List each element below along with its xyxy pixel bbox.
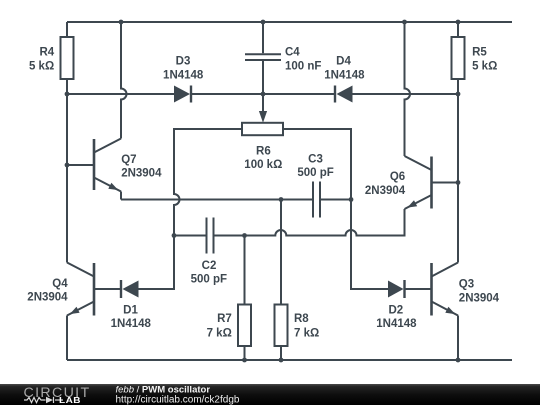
svg-text:100 kΩ: 100 kΩ <box>244 159 282 171</box>
transistor Q7 2N3904 <box>67 139 162 200</box>
footer bar <box>0 384 540 405</box>
wire R7 lower lead <box>244 346 246 360</box>
transistor Q3 2N3904 <box>405 263 500 316</box>
wire right column (top rail to Q3 collector) <box>457 22 459 263</box>
wire C4 bottom lead to R6 wiper <box>262 61 264 113</box>
wire row from R4 bottom to D3 anode with hop over x=121 <box>67 93 174 95</box>
svg-text:5 kΩ: 5 kΩ <box>472 60 497 72</box>
svg-text:7 kΩ: 7 kΩ <box>294 327 319 339</box>
node top rail / Q7 collector <box>119 20 124 25</box>
wire R6 right terminal down to node B <box>284 129 351 200</box>
svg-text:C3: C3 <box>308 153 323 165</box>
svg-text:Q3: Q3 <box>459 279 474 291</box>
resistor R5 5 kΩ <box>452 37 498 79</box>
potentiometer R6 100 kΩ <box>242 111 283 171</box>
svg-text:5 kΩ: 5 kΩ <box>29 60 54 72</box>
wire Q4 emitter column <box>66 316 68 361</box>
svg-text:Q7: Q7 <box>121 154 136 166</box>
svg-text:C4: C4 <box>285 47 300 59</box>
wire C3 right plate to node B <box>320 199 351 201</box>
svg-text:1N4148: 1N4148 <box>111 318 152 330</box>
svg-text:D4: D4 <box>336 56 351 68</box>
wire R8 upper lead from Q7 emitter row through hop <box>280 200 282 305</box>
node Q7 base <box>65 163 70 168</box>
node top rail / R5 <box>456 20 461 25</box>
svg-text:D3: D3 <box>176 56 191 68</box>
node B C3 right / R6 right <box>349 197 354 202</box>
svg-text:R8: R8 <box>294 313 309 325</box>
CircuitLab logo resistor-diode squiggle <box>24 397 63 403</box>
node A R6 left / C2 left / D1 <box>172 233 177 238</box>
wire Q7 collector column <box>121 22 127 139</box>
wire R7 upper lead <box>244 236 246 305</box>
svg-text:1N4148: 1N4148 <box>324 70 365 82</box>
svg-text:500 pF: 500 pF <box>297 167 333 179</box>
node R7 bottom rail <box>242 358 247 363</box>
svg-text:R5: R5 <box>472 47 487 59</box>
diode D4 1N4148 <box>324 56 365 103</box>
node R8 top / Q7 emitter row <box>279 197 284 202</box>
diode D1 1N4148 <box>111 280 152 330</box>
wire node B down to D2 anode <box>351 200 388 290</box>
wire C4 top lead <box>262 22 264 53</box>
resistor R4 5 kΩ <box>29 37 74 79</box>
svg-text:2N3904: 2N3904 <box>365 185 406 197</box>
wire Q3 emitter column <box>457 316 459 361</box>
svg-text:R6: R6 <box>256 146 271 158</box>
svg-text:http://circuitlab.com/ck2fdgb: http://circuitlab.com/ck2fdgb <box>116 395 240 405</box>
transistor Q6 2N3904 <box>365 156 458 209</box>
svg-text:2N3904: 2N3904 <box>27 292 68 304</box>
wire bottom rail <box>67 359 512 361</box>
wire C2 right plate to R7 node <box>214 235 245 237</box>
wire Q7 emitter row to C3 left plate with hop over x=174 <box>121 199 313 201</box>
wire D4 anode to R5 bottom with hop over x=404.5 <box>353 93 459 95</box>
capacitor C2 500 pF <box>191 218 227 286</box>
node R8 bottom rail <box>279 358 284 363</box>
svg-text:R7: R7 <box>217 313 232 325</box>
transistor Q4 2N3904 <box>27 263 120 316</box>
svg-text:1N4148: 1N4148 <box>163 70 204 82</box>
wire R6 left terminal down to node A <box>174 129 241 236</box>
svg-text:2N3904: 2N3904 <box>459 292 500 304</box>
svg-text:500 pF: 500 pF <box>191 273 227 285</box>
wire D1 anode up to node A <box>139 236 175 290</box>
capacitor C4 100 nF <box>245 47 321 73</box>
diode D3 1N4148 <box>163 56 204 103</box>
wire R7 node to Q6 emitter with hops over x=281 and x=351 <box>245 209 405 236</box>
diode D2 1N4148 <box>376 280 417 330</box>
wire D3 cathode to C4 node <box>191 93 263 95</box>
svg-text:2N3904: 2N3904 <box>121 167 162 179</box>
svg-text:Q4: Q4 <box>52 278 68 290</box>
svg-text:100 nF: 100 nF <box>285 60 321 72</box>
svg-text:Q6: Q6 <box>390 171 405 183</box>
node top rail / C4 <box>261 20 266 25</box>
wire C4 node to D4 cathode <box>263 93 335 95</box>
wire Q6 collector column <box>405 22 411 156</box>
svg-text:1N4148: 1N4148 <box>376 318 417 330</box>
wire R8 lower lead <box>280 346 282 360</box>
wire left column (top rail to Q4 collector) <box>66 22 68 263</box>
wire node A to C2 left plate <box>174 235 207 237</box>
capacitor C3 500 pF <box>297 153 333 217</box>
svg-text:R4: R4 <box>39 47 54 59</box>
node C4 bottom / diode row <box>261 92 266 97</box>
wire top rail <box>67 21 512 23</box>
node Q6 base <box>456 180 461 185</box>
svg-text:LAB: LAB <box>59 396 81 405</box>
svg-text:D1: D1 <box>123 304 138 316</box>
node R5 bottom <box>456 92 461 97</box>
node Q3 emitter bottom rail <box>456 358 461 363</box>
node R4 bottom <box>65 92 70 97</box>
node R7 top / C2 right <box>242 233 247 238</box>
svg-text:D2: D2 <box>388 304 403 316</box>
node top rail / Q6 collector <box>402 20 407 25</box>
resistor R8 7 kΩ <box>275 305 320 347</box>
resistor R7 7 kΩ <box>207 305 251 347</box>
svg-text:C2: C2 <box>202 260 217 272</box>
svg-text:7 kΩ: 7 kΩ <box>207 327 232 339</box>
